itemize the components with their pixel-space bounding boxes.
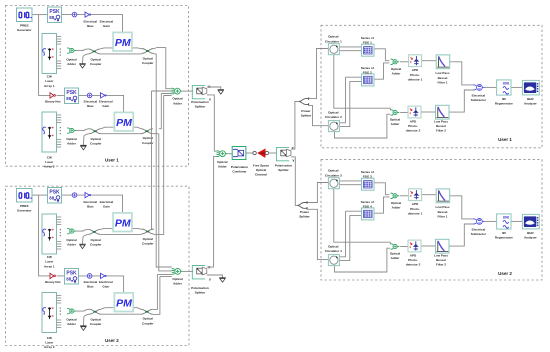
U2 wire PRBS to Binary Not — [39, 195, 50, 276]
U2 wire coupler1 bypass to coupler2 — [100, 233, 141, 235]
RXU2 wire APD upper to LPF upper — [421, 194, 436, 196]
U1 wire PSK to bias to gain — [62, 14, 86, 16]
U2 wire coupler3 bypass to coupler4 — [101, 313, 141, 315]
svg-text:OpticalAdder: OpticalAdder — [391, 201, 401, 210]
U1 CW Laser Array 2 ports — [57, 115, 62, 147]
U2 TX output optical adder — [172, 269, 183, 275]
RXU2 wire 3R regenerator to BER analyzer — [511, 220, 522, 222]
RXU1 optical circulator 1 — [328, 44, 339, 55]
svg-text:OpticalCoupler: OpticalCoupler — [90, 57, 102, 66]
U1 ground (coupler 1 unused port) — [79, 64, 85, 69]
U2 optical coupler 3 — [89, 309, 101, 314]
RXU2 electrical subtractor — [473, 219, 485, 225]
U2 PSK pulse generator 2 — [65, 269, 79, 285]
U2 PRBS Generator — [17, 189, 33, 203]
U1 wire PM1 to coupler2 — [132, 48, 142, 49]
svg-text:PowerSplitter: PowerSplitter — [301, 109, 312, 118]
svg-text:ElectricalSubtractor: ElectricalSubtractor — [471, 227, 487, 236]
U2 CW Laser Array 1 — [42, 214, 57, 254]
U2 electrical bias 1 (+) — [72, 193, 77, 198]
RXU2 APD photodetector 1 — [409, 189, 422, 201]
U1 wire coupler1 to ground — [83, 54, 89, 63]
RXU1 low pass bessel filter 1 — [436, 55, 450, 69]
RXU1 electrical subtractor — [473, 85, 485, 91]
U1 electrical bias 2 (+) — [87, 93, 92, 98]
RXU1 3R regenerator — [497, 80, 511, 95]
RXU1 wire circulator lower up to FBG lower a — [339, 77, 361, 123]
RXU1 wire adder lower to APD lower — [400, 112, 408, 114]
svg-text:PowerSplitter: PowerSplitter — [299, 210, 310, 219]
wire splitter X to power splitter 1 — [291, 102, 299, 150]
U1 PRBS Generator — [17, 8, 33, 22]
U1 optical adder 1 — [67, 48, 76, 53]
U1 wire splitter X to ground — [207, 87, 221, 89]
U2 wire coupler2 up-out — [153, 228, 155, 230]
svg-text:OpticalAdder: OpticalAdder — [391, 67, 401, 76]
U2 wire gain2 to PM2 — [106, 276, 124, 293]
svg-text:898: 898 — [503, 216, 509, 220]
U1 wire coupler2 low-out — [154, 53, 157, 55]
U2 wire gain to PM1 — [90, 195, 123, 213]
RXU2 wire FBG upper to adder upper — [374, 183, 389, 195]
U2 CW Laser Array 1 ports — [57, 217, 62, 249]
U1 phase modulator PM2 — [114, 112, 133, 131]
svg-text:Binary Not: Binary Not — [45, 100, 60, 104]
RXU2 wire circulator to FBG upper pair — [339, 181, 361, 185]
U1 wire coupler1 bypass to coupler2 — [100, 53, 141, 55]
wire power splitter 1 to circulator 1 — [309, 49, 329, 99]
svg-text:88: 88 — [49, 15, 54, 20]
U2 wire PM1 to coupler2 — [132, 228, 142, 229]
U2 ground (coupler 3 unused port) — [80, 326, 86, 331]
svg-text:88: 88 — [66, 276, 71, 281]
power splitter 2 — [298, 201, 308, 209]
svg-text:ElectricalSubtractor: ElectricalSubtractor — [471, 93, 487, 102]
U1 TX output optical adder — [171, 88, 182, 94]
wire power splitter 2 to circulator 4 — [307, 209, 328, 259]
U2 optical adder 1 — [67, 228, 76, 233]
RXU2 BER analyzer — [522, 214, 539, 229]
RXU2 low pass bessel filter 2 — [436, 239, 450, 253]
free space optical channel — [253, 148, 269, 158]
RXU1 wire APD upper to LPF upper — [421, 60, 436, 62]
node vertical bus wires between transmitters — [152, 47, 172, 314]
U1 CW Laser Array 2 — [42, 112, 57, 152]
RXU2 APD photodetector 2 — [408, 240, 421, 252]
RXU1 series of FBG 1 — [362, 44, 375, 56]
wire U1 splitter Y to channel adder — [207, 95, 217, 151]
RXU1 BER analyzer — [522, 80, 539, 95]
svg-text:PM: PM — [115, 37, 131, 49]
U1 wire coupler3 bypass to coupler4 — [101, 133, 141, 135]
U1 wire gain2 to PM2 — [106, 95, 124, 112]
RXU2 optical adder lower — [391, 244, 400, 249]
svg-text:OpticalCoupler: OpticalCoupler — [90, 318, 102, 327]
ground (U2 splitter Y port) — [219, 278, 225, 283]
U2 CW Laser Array 2 — [42, 293, 57, 333]
RXU1 APD photodetector 1 — [409, 55, 422, 67]
RXU2 series of FBG 4 — [362, 208, 375, 220]
RXU2 optical circulator 4 — [328, 255, 339, 266]
node User 1 transmitter section box — [6, 6, 189, 167]
RXU2 optical adder upper — [391, 193, 400, 198]
wire power splitter 2 to circulator 3 — [307, 183, 328, 203]
RXU1 optical circulator 2 — [328, 121, 339, 132]
U1 wire PRBS to PSK — [32, 14, 48, 16]
U1 wire coupler1 to PM1 — [100, 48, 113, 49]
U1 optical adder 2 — [67, 128, 76, 133]
U1 wire adder to coupler1 — [76, 49, 88, 51]
RXU2 wire LPF lower to subtractor minus input — [449, 224, 473, 246]
U2 wire adder2 to coupler3 — [76, 309, 89, 311]
U1 wire gain to PM1 — [90, 15, 123, 33]
svg-text:OpticalCoupler: OpticalCoupler — [142, 317, 154, 326]
U1 electrical gain 2 (triangle) — [101, 93, 107, 98]
node User 2 receiver section box — [321, 160, 542, 280]
U1 electrical bias 1 (+) — [72, 12, 77, 17]
RXU1 wire circulator upper down to adder lower — [334, 55, 391, 111]
U1 optical coupler 1 — [88, 49, 100, 54]
RXU1 wire circulator to FBG upper pair — [339, 47, 361, 51]
RXU1 wire APD lower to LPF lower — [421, 111, 436, 113]
U2 wire coupler3 to ground — [83, 314, 89, 325]
U2 wire splitter Y to ground — [207, 275, 223, 277]
svg-text:OpticalAdder: OpticalAdder — [66, 238, 76, 247]
U2 wire row2 electrical — [57, 275, 101, 277]
U2 wire coupler1 to ground — [83, 234, 89, 243]
svg-text:User 2: User 2 — [498, 271, 512, 276]
RXU1 wire subtractor to 3R regenerator — [485, 86, 497, 88]
U1 wire adder to polarisation splitter — [182, 90, 193, 92]
U2 electrical gain 1 (triangle) — [85, 193, 91, 198]
svg-text:88: 88 — [66, 96, 71, 101]
RXU2 wire FBG lower to adder upper — [374, 197, 389, 213]
RXU2 series of FBG 3 — [362, 178, 375, 190]
U1 wire PM2 to coupler4 — [133, 127, 141, 129]
wire power splitter 1 to circulator 2 — [309, 105, 329, 125]
U2 Binary Not — [50, 273, 55, 278]
U2 CW Laser Array 2 ports — [57, 296, 62, 328]
svg-text:OpticalAdder: OpticalAdder — [390, 118, 400, 127]
svg-text:PM: PM — [116, 297, 132, 309]
U2 PSK pulse generator 1 — [48, 188, 62, 204]
node User 1 receiver section box — [321, 25, 542, 148]
RXU1 wire LPF upper to subtractor plus input — [450, 62, 474, 85]
RXU2 low pass bessel filter 1 — [436, 189, 450, 203]
RXU1 wire circulator lower down to adder lower — [335, 114, 391, 138]
U2 optical adder 2 — [67, 308, 76, 313]
U1 electrical gain 1 (triangle) — [85, 12, 91, 17]
U1 polarisation splitter — [192, 85, 207, 98]
RXU1 optical adder upper — [391, 59, 400, 64]
RXU1 wire circulator lower up to FBG lower b — [339, 81, 361, 126]
RXU2 wire circulator lower down to adder lower — [335, 248, 391, 272]
wire splitter Y to power splitter 2 — [291, 157, 298, 206]
U1 optical coupler 4 — [141, 129, 153, 134]
U1 CW Laser Array 1 ports — [57, 37, 62, 69]
U2 optical coupler 4 — [141, 309, 153, 314]
RXU1 wire LPF lower to subtractor minus input — [449, 90, 473, 112]
RXU2 3R regenerator — [497, 214, 511, 229]
U2 wire PSK to bias to gain — [62, 194, 86, 196]
RXU1 wire adder upper to APD upper — [400, 61, 408, 63]
RXU1 wire FBG lower to adder upper — [374, 63, 389, 79]
U1 wire adder2 to coupler3 — [76, 129, 89, 131]
svg-text:OpticalCoupler: OpticalCoupler — [142, 136, 154, 145]
RXU1 APD photodetector 2 — [408, 106, 421, 118]
svg-text:OpticalAdder: OpticalAdder — [172, 97, 182, 106]
RXU2 wire LPF upper to subtractor plus input — [450, 196, 474, 219]
U1 optical coupler 2 — [142, 49, 154, 54]
svg-text:OpticalCoupler: OpticalCoupler — [142, 57, 154, 66]
svg-text:OpticalAdder: OpticalAdder — [66, 318, 76, 327]
U2 wire adder to polarisation splitter — [183, 270, 194, 272]
node User 2 transmitter section box — [6, 186, 190, 345]
wire adder to polarisation combiner — [228, 153, 233, 155]
U1 wire coupler3 to PM2 — [101, 127, 114, 129]
U1 Binary Not — [50, 93, 55, 98]
svg-text:PM: PM — [115, 217, 131, 229]
U2 electrical bias 2 (+) — [87, 274, 92, 279]
svg-text:User 1: User 1 — [105, 157, 119, 162]
power splitter 1 — [299, 97, 309, 105]
svg-text:OpticalAdder: OpticalAdder — [390, 252, 400, 261]
U2 phase modulator PM2 — [114, 293, 133, 312]
wire FSO channel to polarisation splitter — [268, 152, 276, 154]
svg-text:88: 88 — [49, 195, 54, 200]
svg-text:OpticalAdder: OpticalAdder — [66, 137, 76, 146]
U2 optical coupler 1 — [88, 229, 100, 234]
RXU1 series of FBG 2 — [362, 74, 375, 86]
U2 polarisation splitter — [192, 266, 207, 279]
U1 wire coupler3 to ground — [83, 134, 89, 145]
RXU2 wire subtractor to 3R regenerator — [485, 220, 497, 222]
U2 electrical gain 2 (triangle) — [101, 273, 107, 278]
polarisation combiner — [232, 147, 246, 160]
svg-text:898: 898 — [503, 82, 509, 86]
U2 wire adder to coupler1 — [76, 229, 88, 231]
svg-text:OpticalCoupler: OpticalCoupler — [90, 137, 102, 146]
U2 wire PRBS to PSK — [32, 194, 48, 196]
U2 wire coupler3 to PM2 — [101, 308, 114, 310]
RXU1 wire 3R regenerator to BER analyzer — [511, 86, 522, 88]
channel combining optical adder — [217, 151, 228, 157]
RXU2 wire adder lower to APD lower — [400, 246, 408, 248]
U1 PSK pulse generator 1 — [48, 7, 62, 23]
svg-text:OpticalAdder: OpticalAdder — [217, 160, 227, 169]
wire U2 splitter X to channel adder — [207, 156, 217, 267]
svg-text:OpticalCoupler: OpticalCoupler — [142, 237, 154, 246]
RXU1 optical adder lower — [391, 110, 400, 115]
svg-text:PM: PM — [116, 117, 132, 129]
U1 CW Laser Array 1 — [42, 34, 57, 74]
U2 wire coupler1 to PM1 — [100, 228, 113, 229]
svg-text:User 1: User 1 — [498, 137, 512, 142]
channel polarisation splitter — [276, 147, 291, 160]
RXU1 wire FBG upper to adder upper — [374, 49, 389, 61]
RXU2 wire circulator lower up to FBG lower b — [339, 215, 361, 260]
RXU2 optical circulator 3 — [328, 178, 339, 189]
U1 optical coupler 3 — [89, 129, 101, 134]
U1 wire row2 electrical — [57, 94, 101, 96]
svg-text:Binary Not: Binary Not — [45, 280, 60, 284]
svg-text:User 2: User 2 — [105, 338, 119, 343]
RXU1 low pass bessel filter 2 — [436, 105, 450, 119]
U2 optical coupler 2 — [142, 229, 154, 234]
U2 wire PM2 to coupler4 — [133, 308, 141, 310]
svg-text:OpticalCoupler: OpticalCoupler — [90, 238, 102, 247]
U1 ground (coupler 3 unused port) — [80, 145, 86, 150]
svg-text:OpticalAdder: OpticalAdder — [172, 277, 182, 286]
ground (U1 splitter X port) — [218, 90, 224, 95]
wire combiner to FSO channel — [246, 152, 253, 154]
U1 wire coupler2 up-out — [154, 47, 166, 49]
RXU2 wire circulator lower up to FBG lower a — [339, 211, 361, 257]
U2 ground (coupler 1 unused port) — [79, 244, 85, 249]
RXU2 wire APD lower to LPF lower — [421, 245, 436, 247]
RXU2 wire circulator upper down to adder lower — [334, 189, 391, 245]
U1 phase modulator PM1 — [113, 32, 132, 51]
U1 wire PRBS to Binary Not — [39, 15, 50, 96]
U2 phase modulator PM1 — [113, 213, 132, 232]
U1 PSK pulse generator 2 — [65, 88, 79, 104]
RXU2 wire adder upper to APD upper — [400, 195, 408, 197]
svg-text:OpticalAdder: OpticalAdder — [66, 57, 76, 66]
svg-text:PolarizationCombiner: PolarizationCombiner — [231, 165, 248, 174]
